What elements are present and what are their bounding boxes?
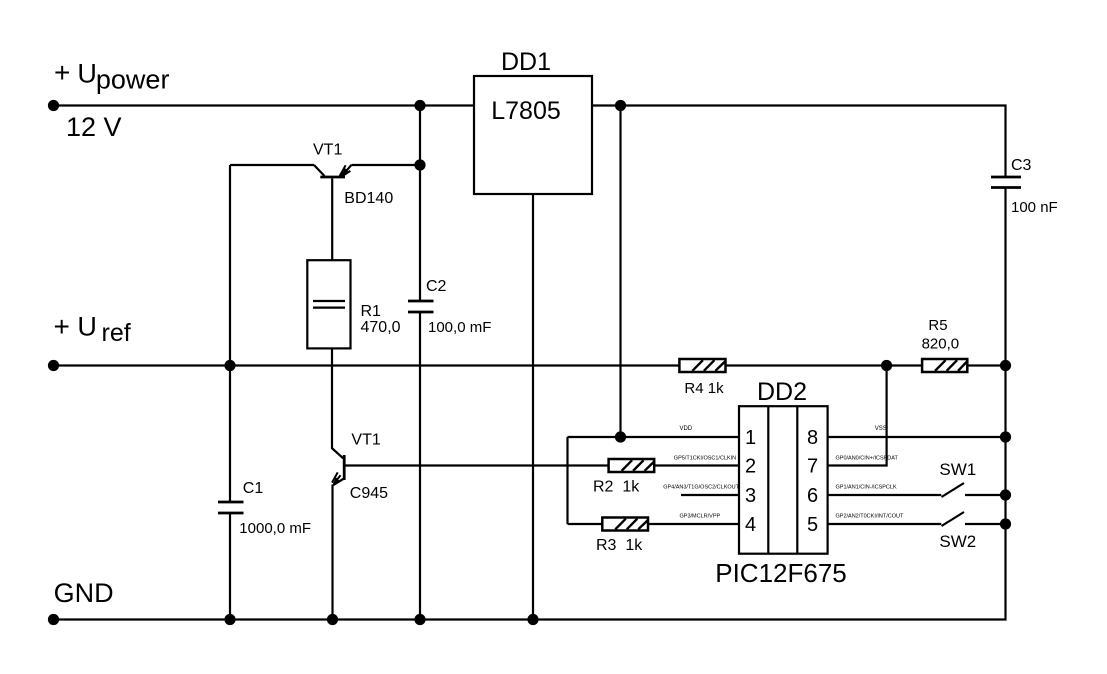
junction GND / C945 emitter [327, 614, 338, 625]
node +Uref terminal dot [48, 360, 59, 371]
svg-text:3: 3 [745, 485, 756, 507]
capacitor C2 100,0 mF [408, 301, 434, 312]
svg-text:PIC12F675: PIC12F675 [715, 558, 847, 588]
junction GND / DD1 ground pin [527, 614, 538, 625]
svg-text:12 V: 12 V [66, 112, 122, 142]
wire branch from 12V rail down to VT1/C2 [419, 106, 421, 301]
svg-text:VDD: VDD [680, 426, 693, 432]
wire DD2 pin 1 lead [568, 436, 740, 438]
svg-text:8: 8 [807, 427, 818, 449]
resistor R1 470,0 [307, 260, 350, 348]
wire VT1 collector down to +Uref [229, 165, 231, 366]
capacitor C1 1000,0 mF [218, 502, 244, 513]
svg-text:GP1/AN1/CIN-/ICSPCLK: GP1/AN1/CIN-/ICSPCLK [836, 485, 897, 491]
junction Uref-R5 / DD2 pin7 branch [881, 360, 892, 371]
svg-text:C2: C2 [426, 278, 447, 295]
wire DD2 pin 4 lead left of R3 [568, 523, 603, 525]
wire C1 bottom plate to GND [229, 514, 231, 620]
wire R1 bottom to VT1(C945) collector [331, 348, 333, 449]
junction GND / C1 [224, 614, 235, 625]
junction right rail / Uref [1000, 360, 1011, 371]
transistor VT1 (BD140, PNP) [230, 165, 420, 261]
svg-text:470,0: 470,0 [361, 319, 401, 336]
wire R2 to DD2 pin 2 [654, 464, 739, 466]
svg-text:L7805: L7805 [491, 97, 561, 125]
wire Uref down to C1 top plate [229, 366, 231, 502]
node +Upower terminal dot [48, 100, 59, 111]
svg-text:power: power [96, 64, 170, 94]
node GND terminal dot [48, 614, 59, 625]
junction DD1 output node [615, 100, 626, 111]
svg-text:C945: C945 [350, 485, 388, 502]
junction VT1 emitter / C2 node [414, 159, 425, 170]
wire +Uref rail [54, 364, 680, 366]
svg-text:GP3/MCLR/VPP: GP3/MCLR/VPP [680, 514, 721, 520]
svg-text:6: 6 [807, 485, 818, 507]
wire DD1 output down to DD2 pin 1 [619, 106, 621, 438]
wire DD2 pin 7 to Uref junction [828, 366, 887, 466]
wire R5 to right rail [967, 364, 1005, 366]
svg-text:VT1: VT1 [313, 142, 342, 159]
transistor VT1 (C945, NPN) [332, 448, 344, 620]
svg-text:+: + [54, 311, 70, 342]
wire R3 to DD2 pin 4 [648, 523, 739, 525]
resistor R4 1k [679, 359, 725, 372]
wire 12V rail right of DD1 to top-right corner [592, 106, 1006, 178]
svg-text:GP4/AN3/T1G/OSC2/CLKOUT: GP4/AN3/T1G/OSC2/CLKOUT [663, 485, 739, 491]
svg-text:VT1: VT1 [351, 432, 380, 449]
svg-text:GP2/AN2/T0CKI/INT/COUT: GP2/AN2/T0CKI/INT/COUT [836, 514, 904, 520]
svg-text:DD2: DD2 [757, 378, 807, 406]
svg-text:SW2: SW2 [939, 532, 976, 551]
wire DD2 pin 3 stub [681, 494, 739, 496]
svg-text:R5: R5 [928, 317, 947, 334]
resistor R3 1k [602, 518, 648, 531]
wire DD1 ground pin down to GND rail [532, 194, 534, 620]
svg-text:GND: GND [54, 578, 114, 608]
svg-text:R2 1k: R2 1k [593, 479, 640, 496]
node +Uref label [54, 311, 131, 347]
microcontroller DD2 box [739, 406, 828, 554]
svg-text:R1: R1 [361, 303, 382, 320]
svg-text:ref: ref [102, 319, 131, 347]
svg-text:SW1: SW1 [939, 460, 976, 479]
svg-text:7: 7 [807, 455, 818, 477]
wire VDD loop vertical [566, 437, 568, 524]
svg-text:R4 1k: R4 1k [684, 380, 724, 397]
svg-text:BD140: BD140 [344, 190, 393, 207]
svg-text:U: U [77, 59, 97, 89]
svg-text:GP0/AN0/CIN+/ICSPDAT: GP0/AN0/CIN+/ICSPDAT [836, 456, 899, 462]
junction pin1 / DD1 output [615, 431, 626, 442]
capacitor C3 100 nF [991, 177, 1021, 188]
svg-text:GP5/T1CKI/OSC1/CLKIN: GP5/T1CKI/OSC1/CLKIN [674, 456, 736, 462]
svg-text:4: 4 [745, 514, 756, 536]
junction right rail / pin 8 [1000, 431, 1011, 442]
svg-text:100 nF: 100 nF [1011, 199, 1058, 216]
resistor R2 1k [609, 459, 655, 472]
svg-text:100,0 mF: 100,0 mF [428, 319, 491, 336]
junction GND / C2 [414, 614, 425, 625]
junction right rail / SW1 [1000, 489, 1011, 500]
junction 12V rail / C2-VT1 branch [414, 100, 425, 111]
svg-text:1000,0 mF: 1000,0 mF [239, 520, 311, 537]
svg-text:C1: C1 [243, 480, 264, 497]
wire 12V rail left of DD1 [54, 104, 475, 106]
wire GND rail with right riser [54, 188, 1006, 620]
junction right rail / SW2 [1000, 518, 1011, 529]
wire DD2 pin 8 to right rail [828, 436, 1006, 438]
svg-text:2: 2 [745, 455, 756, 477]
junction Uref / VT1-C1 branch [224, 360, 235, 371]
switch SW1 [828, 483, 1006, 497]
resistor R5 820,0 [922, 359, 967, 372]
switch SW2 [828, 512, 1006, 526]
svg-text:820,0: 820,0 [922, 336, 960, 353]
voltage regulator DD1 box [474, 76, 592, 194]
svg-text:+: + [54, 57, 70, 88]
node GND label [54, 578, 114, 608]
svg-text:U: U [77, 312, 97, 342]
svg-text:C3: C3 [1011, 157, 1032, 174]
svg-text:VSS: VSS [875, 426, 887, 432]
svg-text:DD1: DD1 [501, 48, 551, 76]
wire C2 bottom to GND rail [419, 313, 421, 620]
wire R4 to R5 [726, 364, 923, 366]
wire C945 base to R2 [345, 464, 609, 466]
node Upower label [54, 57, 169, 142]
svg-text:1: 1 [745, 427, 756, 449]
svg-text:R3 1k: R3 1k [596, 537, 643, 554]
svg-text:5: 5 [807, 514, 818, 536]
